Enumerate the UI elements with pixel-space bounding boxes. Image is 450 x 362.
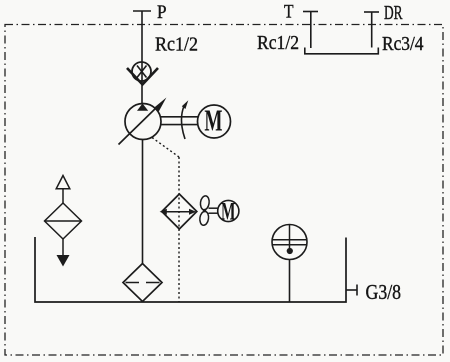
motor M1 circle: [198, 105, 231, 138]
port DR tick: [364, 11, 379, 13]
T-DR connecting bracket: [305, 48, 379, 54]
fan shaft: [209, 207, 219, 209]
breather diamond: [45, 203, 82, 239]
fan blades: [200, 195, 210, 210]
gauge top tick: [289, 225, 291, 252]
svg-text:T: T: [284, 2, 294, 23]
gauge drop line: [289, 260, 291, 303]
pump outflow triangle: [137, 104, 148, 111]
svg-text:M: M: [204, 103, 222, 138]
svg-text:Rc1/2: Rc1/2: [155, 34, 198, 56]
cooler diamond: [162, 194, 197, 229]
svg-text:Rc1/2: Rc1/2: [257, 32, 299, 54]
check valve V1 circle: [132, 62, 151, 81]
svg-text:Rc3/4: Rc3/4: [382, 33, 424, 55]
gauge dot: [287, 248, 293, 254]
check valve X mark: [137, 66, 147, 78]
fan motor M2 circle: [218, 200, 239, 221]
drain dashed diagonal: [152, 138, 179, 158]
port P line: [141, 11, 143, 104]
port T tick: [303, 11, 318, 13]
level gauge circle: [272, 225, 307, 260]
pump variable arrow: [119, 106, 159, 145]
port DR line: [371, 12, 373, 48]
svg-text:G3/8: G3/8: [366, 280, 402, 304]
gauge chords: [273, 239, 307, 241]
rotation arrow: [181, 106, 185, 139]
pump P1 circle: [125, 104, 161, 140]
filter diamond: [123, 264, 162, 302]
shaft pump-motor: [161, 116, 198, 118]
cooler arrow line: [164, 211, 194, 213]
breather down arrow: [57, 255, 70, 267]
tank outline: [35, 237, 346, 302]
G3/8 tick: [356, 285, 358, 296]
G3/8 stub: [346, 289, 357, 291]
svg-text:P: P: [157, 2, 167, 23]
svg-text:DR: DR: [384, 3, 403, 24]
filter dashed element: [126, 282, 160, 284]
motor M1 label: [204, 103, 222, 138]
svg-text:M: M: [221, 196, 236, 225]
breather stem top: [62, 189, 64, 203]
suction line pump-filter: [142, 140, 144, 264]
port P tick: [133, 10, 151, 12]
drain dashed vertical: [178, 157, 180, 302]
breather top triangle: [56, 176, 70, 189]
breather diamond line: [45, 220, 81, 222]
check valve seat V: [127, 68, 158, 85]
breather stem bottom: [62, 239, 64, 255]
fan motor M2 label: [221, 196, 236, 225]
port T line: [310, 12, 312, 49]
